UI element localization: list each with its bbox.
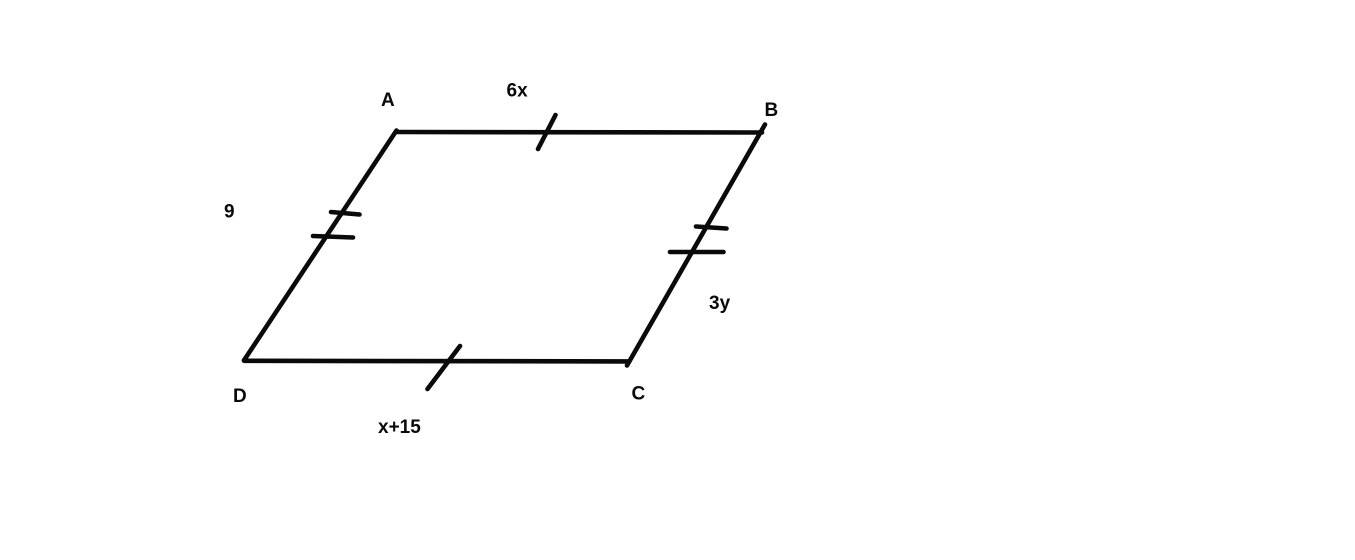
side BC (right)	[627, 125, 765, 366]
svg-text:6x: 6x	[507, 81, 529, 102]
tick mark on AB	[538, 115, 556, 149]
upper tick mark on AD	[331, 212, 360, 215]
lower tick mark on BC	[670, 250, 724, 255]
svg-text:3y: 3y	[709, 293, 731, 314]
lower tick mark on AD	[313, 236, 353, 238]
upper tick mark on BC	[696, 227, 727, 229]
svg-text:A: A	[381, 90, 395, 111]
svg-text:B: B	[765, 100, 779, 121]
side AB (top)	[396, 130, 762, 135]
side DC (bottom)	[244, 358, 629, 363]
side AD (left)	[244, 131, 397, 361]
svg-text:9: 9	[224, 202, 235, 223]
svg-text:x+15: x+15	[378, 417, 421, 438]
svg-text:C: C	[632, 384, 646, 405]
tick mark on DC	[428, 346, 461, 389]
svg-text:D: D	[233, 386, 247, 407]
